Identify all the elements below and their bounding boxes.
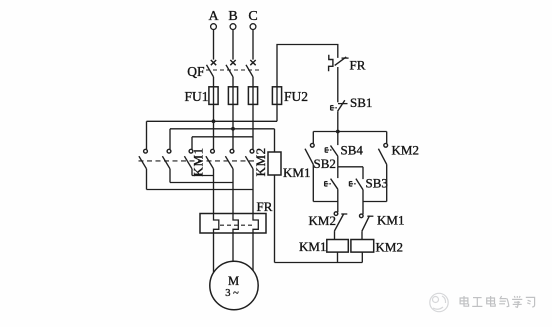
svg-text:C: C — [248, 9, 257, 24]
svg-text:SB1: SB1 — [350, 95, 372, 110]
svg-text:B: B — [228, 9, 237, 24]
svg-text:SB2: SB2 — [314, 156, 336, 171]
svg-text:KM1: KM1 — [377, 213, 404, 228]
svg-text:FR: FR — [350, 58, 366, 73]
svg-text:FU1: FU1 — [184, 89, 208, 104]
svg-text:KM2: KM2 — [392, 143, 419, 158]
svg-text:FR: FR — [257, 199, 273, 214]
svg-text:QF: QF — [187, 64, 205, 79]
svg-text:M: M — [228, 274, 239, 288]
svg-text:A: A — [208, 9, 219, 24]
svg-text:KM2: KM2 — [309, 213, 336, 228]
svg-text:KM1: KM1 — [283, 165, 310, 180]
svg-text:SB3: SB3 — [366, 176, 388, 191]
svg-text:KM2: KM2 — [253, 147, 268, 176]
svg-text:3 ~: 3 ~ — [225, 288, 239, 299]
svg-text:KM1: KM1 — [299, 239, 326, 254]
svg-text:FU2: FU2 — [284, 89, 308, 104]
svg-text:KM2: KM2 — [376, 240, 403, 255]
svg-text:KM1: KM1 — [191, 147, 206, 176]
svg-text:SB4: SB4 — [341, 143, 364, 158]
